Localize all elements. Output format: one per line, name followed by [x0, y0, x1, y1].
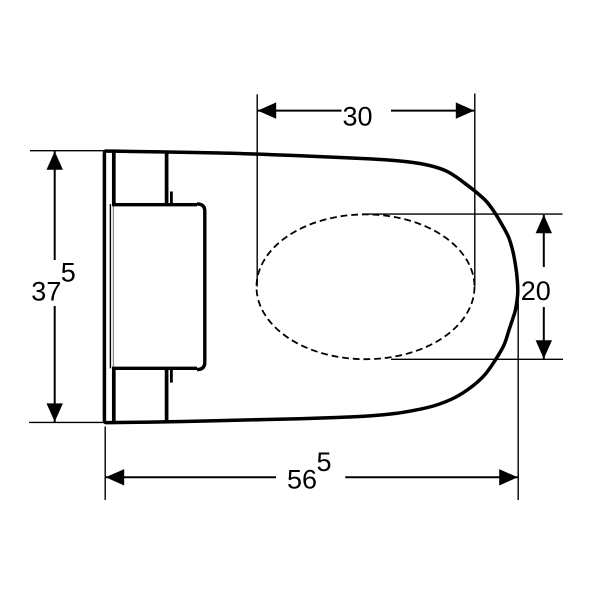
- dim37 line lower segment: [54, 306, 56, 422]
- plate left gray line: [112, 206, 114, 366]
- dim30 left extension line: [256, 94, 258, 286]
- svg-text:56: 56: [287, 464, 317, 494]
- dim56 line left segment: [105, 476, 276, 478]
- dim37 bottom extension line: [29, 421, 104, 423]
- back inner thin line: [109, 204, 111, 368]
- svg-text:5: 5: [317, 447, 332, 477]
- lower block divider: [165, 367, 169, 422]
- dim37 up arrow: [47, 151, 63, 170]
- dim20 top extension line: [363, 213, 563, 215]
- dim56 left extension line: [104, 427, 106, 501]
- upper block divider: [165, 151, 169, 206]
- dim20 up arrow: [536, 215, 552, 234]
- svg-text:5: 5: [61, 257, 76, 287]
- dim56 left arrow: [106, 469, 125, 485]
- dim37 down arrow: [47, 403, 63, 422]
- dim20 line upper segment: [543, 215, 545, 267]
- lower block left edge: [112, 367, 116, 422]
- dim20 bottom extension line: [391, 358, 563, 360]
- dim30 line right segment: [391, 110, 475, 112]
- dim30 left arrow: [258, 102, 277, 118]
- dim37 top extension line: [30, 150, 104, 152]
- dim56 right extension line: [517, 297, 519, 500]
- dim30 line left segment: [257, 110, 341, 112]
- dim56 line right segment: [345, 476, 518, 478]
- plate right edge: [197, 204, 205, 370]
- upper block left edge: [112, 151, 116, 206]
- plate bottom edge: [112, 367, 197, 370]
- dim30 right extension line: [474, 94, 476, 287]
- svg-text:20: 20: [521, 276, 551, 306]
- dim20 down arrow: [536, 340, 552, 359]
- bowl oval dashed: [257, 214, 475, 359]
- svg-text:30: 30: [343, 102, 373, 132]
- plate top edge: [112, 203, 197, 206]
- dim20 line lower segment: [543, 307, 545, 359]
- dim37 line upper segment: [54, 151, 56, 260]
- step stub bottom: [170, 369, 173, 383]
- dim30 right arrow: [456, 102, 475, 118]
- body outline: [104, 151, 517, 423]
- svg-text:37: 37: [31, 277, 61, 307]
- dim56 right arrow: [499, 469, 518, 485]
- step stub top: [170, 192, 173, 205]
